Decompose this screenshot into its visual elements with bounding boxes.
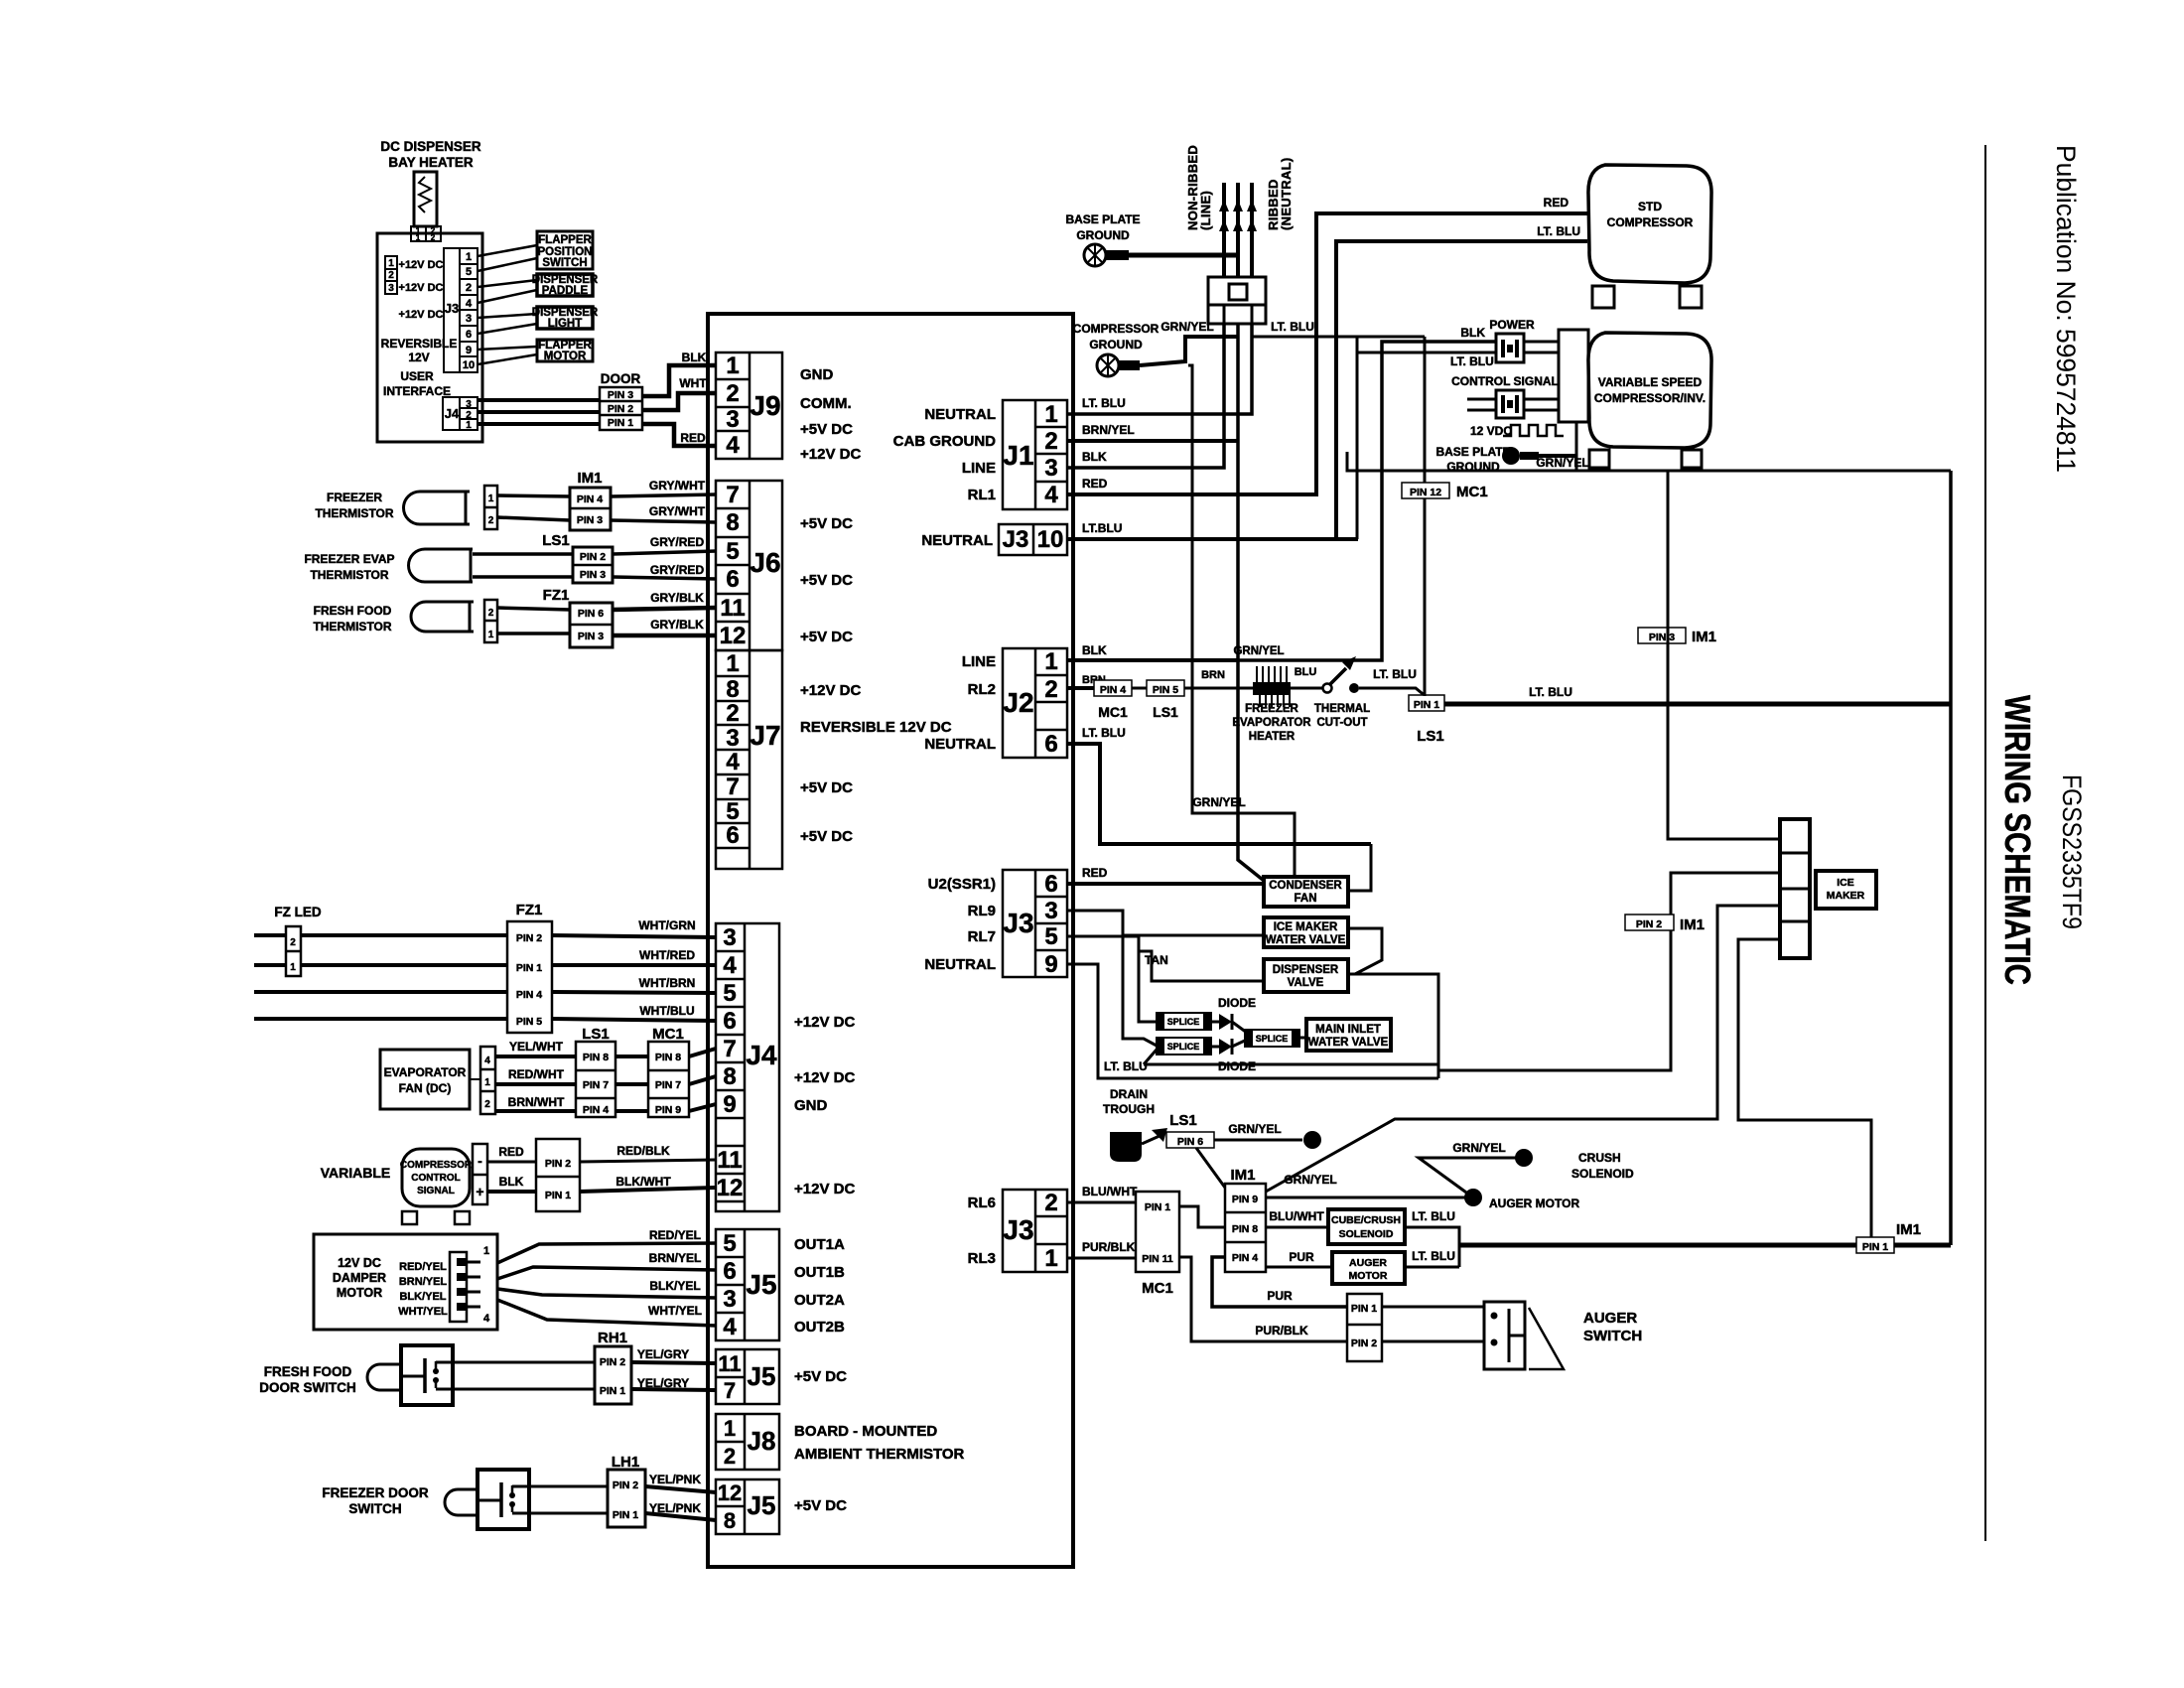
diode [1219, 1014, 1232, 1030]
svg-text:PIN 9: PIN 9 [1232, 1194, 1258, 1205]
wire [254, 990, 507, 994]
svg-text:6: 6 [466, 329, 472, 341]
wire [613, 577, 716, 579]
wire [552, 935, 716, 937]
svg-text:+5V DC: +5V DC [800, 421, 853, 438]
wire [642, 393, 716, 410]
wire MC1 pin12 drop [1424, 337, 1427, 696]
svg-text:LS1: LS1 [1153, 704, 1178, 720]
wire ice cell3 ground [1266, 906, 1780, 1192]
svg-text:RL3: RL3 [968, 1250, 996, 1267]
svg-text:+5V DC: +5V DC [800, 629, 853, 645]
wire [1524, 409, 1559, 412]
svg-text:CRUSH: CRUSH [1578, 1151, 1621, 1165]
svg-text:-: - [478, 1153, 482, 1169]
svg-text:RED: RED [1544, 196, 1570, 210]
svg-text:FREEZER: FREEZER [1245, 703, 1298, 715]
svg-text:FREEZER DOOR: FREEZER DOOR [322, 1485, 429, 1500]
svg-text:RL2: RL2 [968, 681, 996, 698]
svg-text:USER: USER [400, 369, 434, 383]
wire [1129, 253, 1238, 258]
svg-text:MC1: MC1 [1456, 484, 1488, 500]
connector LS1 fan pins [576, 1042, 615, 1117]
svg-text:1: 1 [483, 1245, 489, 1257]
wire ice valve return [1348, 928, 1382, 974]
connector J4 [716, 923, 779, 1211]
wire [1132, 687, 1147, 690]
svg-text:4: 4 [723, 952, 737, 979]
svg-text:GRY/RED: GRY/RED [650, 535, 705, 549]
svg-text:NEUTRAL: NEUTRAL [924, 736, 996, 753]
wire [645, 1486, 716, 1492]
svg-text:5: 5 [723, 980, 736, 1007]
svg-text:GRN/YEL: GRN/YEL [1284, 1173, 1336, 1187]
svg-text:WHT: WHT [679, 376, 707, 390]
ice maker water valve box [1264, 917, 1348, 947]
svg-text:LIGHT: LIGHT [548, 318, 583, 330]
svg-text:GRN/YEL: GRN/YEL [1228, 1122, 1281, 1136]
wire [1211, 1046, 1219, 1049]
connector J4 user interface [443, 397, 478, 430]
thermistor fresh food probe [411, 602, 474, 632]
wire BRN/YEL to J1 pin2 [1067, 439, 1238, 443]
svg-text:2: 2 [726, 700, 739, 727]
svg-text:AUGER MOTOR: AUGER MOTOR [1489, 1196, 1579, 1210]
connector J7 [716, 650, 782, 869]
svg-text:PIN 3: PIN 3 [608, 389, 633, 401]
wire [1067, 882, 1264, 886]
svg-text:PIN 4: PIN 4 [1232, 1252, 1258, 1264]
svg-text:PIN 2: PIN 2 [1636, 918, 1662, 930]
connector J3 pin 10 [999, 524, 1067, 555]
svg-text:5: 5 [723, 1230, 736, 1257]
svg-text:PIN 2: PIN 2 [1351, 1337, 1377, 1349]
svg-text:LT. BLU: LT. BLU [1082, 396, 1126, 410]
wire [1144, 1050, 1157, 1064]
svg-text:REVERSIBLE: REVERSIBLE [381, 337, 458, 351]
wire [497, 632, 570, 635]
wire fan right lead [1348, 844, 1371, 891]
wire [1467, 409, 1496, 412]
svg-text:+5V DC: +5V DC [794, 1497, 847, 1514]
wire to ice maker cell2 [1438, 873, 1780, 1070]
wire [642, 424, 716, 446]
wire [478, 324, 537, 334]
svg-text:PIN 8: PIN 8 [583, 1052, 609, 1063]
svg-text:6: 6 [723, 1008, 736, 1035]
main control board outline [708, 314, 1073, 1567]
svg-text:PIN 1: PIN 1 [545, 1190, 571, 1201]
svg-text:+12V DC: +12V DC [399, 282, 444, 294]
svg-text:3: 3 [723, 924, 736, 951]
svg-text:LS1: LS1 [1169, 1112, 1197, 1129]
heater freezer evaporator [1253, 682, 1291, 695]
svg-text:DRAIN: DRAIN [1110, 1087, 1148, 1101]
connector bay heater pins [411, 226, 441, 241]
wire [1211, 1021, 1219, 1024]
title separator line [1984, 145, 1986, 1541]
svg-text:GND: GND [800, 366, 834, 383]
condenser fan box [1264, 877, 1348, 907]
svg-text:BLK: BLK [1082, 643, 1107, 657]
svg-text:1: 1 [1044, 1245, 1057, 1272]
svg-text:PIN 6: PIN 6 [578, 608, 604, 620]
svg-text:11: 11 [717, 1147, 742, 1174]
wire [254, 1017, 507, 1021]
svg-text:RL6: RL6 [968, 1195, 996, 1211]
svg-text:PIN 6: PIN 6 [1177, 1136, 1203, 1148]
connector evaporator fan [480, 1047, 495, 1114]
wire [478, 290, 537, 303]
svg-text:1: 1 [488, 493, 494, 504]
svg-text:5: 5 [726, 798, 739, 825]
connector J3 relays [1003, 870, 1067, 977]
wire [1067, 686, 1094, 690]
svg-text:ICE MAKER: ICE MAKER [1274, 921, 1338, 933]
svg-text:BOARD - MOUNTED: BOARD - MOUNTED [794, 1423, 937, 1440]
connector RH1 [595, 1346, 631, 1404]
crush solenoid terminal [1515, 1149, 1533, 1167]
svg-text:PIN 1: PIN 1 [608, 417, 633, 429]
svg-text:BLK/WHT: BLK/WHT [615, 1175, 671, 1189]
wire ice cell4 [1738, 939, 1871, 1237]
user interface box [377, 233, 482, 442]
svg-text:LINE: LINE [962, 460, 996, 477]
flapper position switch box [537, 231, 593, 269]
connector auger switch pins [1347, 1294, 1382, 1361]
wire [487, 1161, 536, 1164]
freezer door switch loop [445, 1489, 458, 1515]
wire [552, 963, 716, 967]
svg-text:DIODE: DIODE [1218, 996, 1256, 1010]
wire [1179, 1257, 1347, 1341]
svg-text:RL1: RL1 [968, 487, 996, 503]
wire [1266, 1196, 1473, 1199]
svg-text:1: 1 [1044, 648, 1057, 675]
svg-text:+12V DC: +12V DC [399, 309, 444, 321]
square wave symbol [1503, 425, 1564, 436]
svg-text:WHT/YEL: WHT/YEL [648, 1304, 702, 1318]
svg-text:U2(SSR1): U2(SSR1) [928, 876, 996, 893]
svg-text:PIN 2: PIN 2 [516, 932, 542, 944]
svg-text:WHT/RED: WHT/RED [639, 948, 695, 962]
svg-text:IM1: IM1 [1692, 629, 1716, 645]
svg-text:SPLICE: SPLICE [1167, 1017, 1200, 1027]
wire neutral RL loop [1067, 964, 1438, 1078]
wire [1067, 1257, 1136, 1260]
svg-text:THERMAL: THERMAL [1314, 703, 1370, 715]
svg-text:PUR/BLK: PUR/BLK [1255, 1324, 1308, 1337]
svg-text:VARIABLE SPEED: VARIABLE SPEED [1598, 375, 1703, 389]
wire line conductor to J1 pin3 BLK [1067, 324, 1224, 468]
svg-text:1: 1 [726, 650, 739, 677]
svg-text:DOOR SWITCH: DOOR SWITCH [259, 1380, 356, 1395]
svg-text:STD: STD [1638, 200, 1662, 213]
wire ground trunk to ice maker cell1 [1668, 471, 1780, 839]
svg-text:VALVE: VALVE [1288, 977, 1324, 989]
wire [478, 354, 537, 364]
wire [495, 1109, 576, 1113]
svg-text:PIN 12: PIN 12 [1410, 487, 1441, 498]
svg-text:PIN 1: PIN 1 [1145, 1201, 1170, 1213]
svg-text:MOTOR: MOTOR [337, 1286, 382, 1300]
svg-text:BASE PLATE: BASE PLATE [1435, 445, 1510, 459]
svg-text:8: 8 [724, 1508, 736, 1533]
svg-text:SWITCH: SWITCH [1583, 1328, 1642, 1344]
svg-text:Publication No: 5995724811: Publication No: 5995724811 [2051, 145, 2081, 473]
svg-text:DOOR: DOOR [601, 371, 641, 386]
svg-text:3: 3 [1044, 455, 1057, 482]
svg-text:DAMPER: DAMPER [333, 1271, 386, 1285]
svg-text:INTERFACE: INTERFACE [383, 384, 451, 398]
svg-text:SWITCH: SWITCH [542, 257, 587, 269]
connector control signal pins [536, 1139, 580, 1211]
svg-text:+5V DC: +5V DC [800, 779, 853, 796]
svg-text:EVAPORATOR: EVAPORATOR [1232, 717, 1311, 729]
connector IM1 thermistor pins [570, 488, 611, 530]
svg-text:7: 7 [723, 1036, 736, 1062]
svg-text:1: 1 [1044, 401, 1057, 428]
svg-text:FZ LED: FZ LED [274, 905, 321, 919]
wire LT.BLU J3 pin10 neutral bus [1067, 537, 1358, 541]
svg-text:2: 2 [1044, 676, 1057, 703]
connector J6 [716, 481, 782, 650]
svg-text:OUT1A: OUT1A [794, 1236, 845, 1253]
wire [512, 1485, 608, 1488]
auger motor box [1332, 1252, 1405, 1284]
svg-text:GRN/YEL: GRN/YEL [1536, 456, 1588, 470]
svg-text:LH1: LH1 [612, 1454, 639, 1471]
wire [497, 608, 570, 610]
wire [478, 280, 537, 287]
wire [1524, 341, 1559, 344]
svg-text:LT. BLU: LT. BLU [1412, 1249, 1455, 1263]
wire [497, 1267, 716, 1279]
wire [611, 494, 716, 496]
wire [1266, 1226, 1328, 1229]
wire [478, 422, 600, 426]
svg-text:8: 8 [726, 509, 739, 536]
switch freezer door [478, 1470, 529, 1529]
splice [1157, 1038, 1211, 1055]
svg-text:8: 8 [723, 1063, 736, 1090]
wire [631, 1389, 716, 1390]
svg-text:PIN 1: PIN 1 [600, 1385, 625, 1397]
svg-text:SWITCH: SWITCH [348, 1501, 401, 1516]
svg-text:POWER: POWER [1489, 318, 1535, 332]
wire RL9 to ice maker water valve [1067, 911, 1264, 935]
wire neutral drop from plug [1252, 336, 1425, 339]
svg-text:LT. BLU: LT. BLU [1373, 667, 1417, 681]
svg-text:FZ1: FZ1 [516, 902, 543, 918]
svg-text:+5V DC: +5V DC [794, 1368, 847, 1385]
svg-text:J5: J5 [746, 1269, 776, 1300]
svg-text:3: 3 [723, 1286, 736, 1313]
plug box [1208, 277, 1266, 324]
svg-text:PIN 1: PIN 1 [516, 962, 542, 974]
variable speed compressor [1588, 333, 1711, 448]
svg-text:BLK: BLK [499, 1175, 524, 1189]
wire [613, 633, 716, 638]
svg-text:RED: RED [1082, 866, 1108, 880]
svg-text:FRESH FOOD: FRESH FOOD [314, 604, 392, 618]
svg-text:GRN/YEL: GRN/YEL [1233, 645, 1284, 657]
svg-text:BLK/YEL: BLK/YEL [649, 1279, 700, 1293]
wire [631, 1362, 716, 1363]
svg-text:+5V DC: +5V DC [800, 828, 853, 845]
svg-text:3: 3 [466, 313, 472, 325]
switch fresh food door [401, 1345, 453, 1405]
svg-text:2: 2 [388, 270, 394, 281]
svg-text:PIN 2: PIN 2 [580, 551, 606, 563]
svg-text:PIN 3: PIN 3 [578, 631, 604, 642]
svg-text:LS1: LS1 [582, 1026, 610, 1043]
svg-text:PIN 4: PIN 4 [1100, 684, 1126, 696]
svg-text:GRY/RED: GRY/RED [650, 563, 705, 577]
svg-text:FAN (DC): FAN (DC) [399, 1081, 452, 1095]
svg-text:COMPRESSOR: COMPRESSOR [1607, 215, 1694, 229]
svg-text:PUR/BLK: PUR/BLK [1082, 1240, 1136, 1254]
svg-text:+12V DC: +12V DC [794, 1014, 855, 1031]
wire [478, 314, 537, 318]
svg-text:YEL/GRY: YEL/GRY [637, 1347, 689, 1361]
connector DOOR [600, 387, 642, 430]
svg-text:AUGER: AUGER [1583, 1310, 1637, 1327]
svg-text:4: 4 [484, 1055, 490, 1066]
wire [1382, 1306, 1484, 1309]
svg-text:THERMISTOR: THERMISTOR [310, 568, 388, 582]
wire [1575, 422, 1578, 471]
connector LS1 thermistor pins [573, 547, 613, 583]
svg-text:(LINE): (LINE) [1198, 191, 1213, 230]
cord arrows [1219, 200, 1229, 211]
main inlet water valve box [1306, 1019, 1391, 1051]
svg-text:4: 4 [466, 298, 473, 310]
svg-text:IM1: IM1 [1230, 1167, 1255, 1184]
svg-text:PIN 3: PIN 3 [580, 569, 606, 581]
wire [552, 992, 716, 993]
svg-text:J3: J3 [445, 301, 459, 316]
svg-text:MOTOR: MOTOR [544, 351, 587, 362]
svg-text:LINE: LINE [962, 653, 996, 670]
svg-text:FRESH FOOD: FRESH FOOD [264, 1364, 352, 1379]
svg-text:RED/YEL: RED/YEL [399, 1261, 447, 1273]
svg-text:2: 2 [1044, 1190, 1057, 1216]
svg-text:6: 6 [723, 1258, 736, 1285]
wire [1067, 1201, 1136, 1204]
svg-text:ICE: ICE [1837, 877, 1854, 889]
wire [1266, 1266, 1332, 1269]
svg-text:CAB GROUND: CAB GROUND [893, 433, 996, 450]
svg-text:COMM.: COMM. [800, 395, 852, 412]
svg-text:10: 10 [463, 359, 475, 371]
svg-text:12: 12 [720, 623, 747, 649]
svg-text:9: 9 [466, 345, 472, 356]
svg-text:5: 5 [466, 266, 472, 278]
wire ground bus to ice maker [1347, 452, 1951, 471]
svg-text:EVAPORATOR: EVAPORATOR [384, 1065, 467, 1079]
svg-text:PIN 5: PIN 5 [1153, 684, 1178, 696]
svg-text:IM1: IM1 [1896, 1221, 1921, 1238]
drain trough symbol [1110, 1132, 1142, 1162]
svg-text:J1: J1 [1003, 440, 1033, 471]
svg-text:GRN/YEL: GRN/YEL [1160, 320, 1213, 334]
svg-text:PIN 3: PIN 3 [1649, 632, 1675, 643]
svg-text:FLAPPER: FLAPPER [538, 234, 592, 246]
svg-text:J7: J7 [750, 720, 780, 751]
svg-text:BLK/YEL: BLK/YEL [399, 1291, 446, 1303]
wire [1184, 687, 1255, 690]
wire [580, 1188, 716, 1192]
svg-text:3: 3 [726, 406, 739, 433]
svg-text:GRN/YEL: GRN/YEL [1452, 1141, 1505, 1155]
svg-text:CUT-OUT: CUT-OUT [1316, 717, 1367, 729]
svg-text:MOTOR: MOTOR [1349, 1270, 1388, 1282]
wire [1382, 1340, 1484, 1343]
svg-text:LT. BLU: LT. BLU [1412, 1209, 1455, 1223]
svg-text:IM1: IM1 [577, 470, 602, 487]
wire [552, 1019, 716, 1021]
wire [1359, 688, 1427, 697]
wire RED J1 pin4 to STD compressor [1067, 213, 1587, 494]
svg-text:4: 4 [726, 749, 740, 775]
svg-text:3: 3 [1044, 898, 1057, 924]
svg-text:11: 11 [720, 595, 745, 622]
wire [613, 551, 716, 554]
svg-text:YEL/WHT: YEL/WHT [509, 1040, 564, 1054]
connector J1 [1003, 400, 1067, 509]
connector FZ LED [286, 926, 301, 976]
thermal cut-out switch [1323, 684, 1332, 693]
svg-text:RED/BLK: RED/BLK [616, 1144, 670, 1158]
svg-text:PIN 1: PIN 1 [1862, 1241, 1888, 1253]
svg-text:LT. BLU: LT. BLU [1537, 224, 1580, 238]
svg-text:WHT/YEL: WHT/YEL [398, 1306, 448, 1318]
wire [478, 245, 537, 256]
wire to power connector [1238, 342, 1496, 660]
svg-text:CONTROL SIGNAL: CONTROL SIGNAL [1451, 374, 1559, 388]
wire [497, 495, 570, 496]
svg-text:SPLICE: SPLICE [1167, 1042, 1200, 1052]
compressor control signal blob [402, 1149, 470, 1206]
svg-text:8: 8 [726, 676, 739, 703]
wire [512, 1512, 608, 1515]
wire dispenser valve return [1348, 974, 1438, 1078]
svg-text:BLU: BLU [1295, 666, 1317, 678]
pin box PIN 1 IM1 [1856, 1237, 1894, 1253]
svg-text:RL7: RL7 [968, 928, 996, 945]
svg-text:7: 7 [724, 1378, 736, 1403]
wire [689, 1104, 716, 1111]
svg-text:CONTROL: CONTROL [411, 1173, 460, 1184]
svg-text:TAN: TAN [1145, 953, 1168, 967]
wire right loop vertical [1949, 471, 1953, 1245]
svg-text:12: 12 [717, 1175, 744, 1201]
wire [615, 1082, 648, 1086]
svg-text:PIN 2: PIN 2 [613, 1479, 638, 1491]
svg-text:9: 9 [723, 1091, 736, 1118]
svg-text:11: 11 [718, 1351, 741, 1376]
auger motor terminal [1464, 1189, 1482, 1206]
svg-text:COMPRESSOR: COMPRESSOR [1073, 322, 1160, 336]
variable compressor feet [1589, 450, 1609, 468]
wire LT.BLU return trunk [1459, 1243, 1951, 1248]
dispenser light box [537, 307, 593, 329]
svg-text:(NEUTRAL): (NEUTRAL) [1279, 158, 1294, 230]
svg-text:+: + [476, 1184, 483, 1199]
svg-text:OUT2B: OUT2B [794, 1319, 845, 1336]
svg-text:10: 10 [1037, 526, 1064, 553]
